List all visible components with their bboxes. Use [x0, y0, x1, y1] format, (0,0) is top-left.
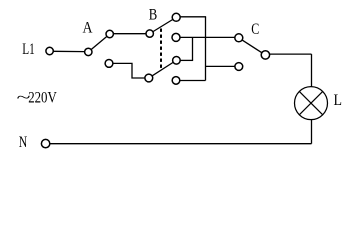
svg-text:B: B	[149, 7, 158, 24]
svg-text:N: N	[19, 134, 28, 151]
svg-text:L: L	[334, 92, 343, 109]
svg-text:C: C	[251, 21, 259, 38]
svg-text:A: A	[83, 20, 94, 37]
svg-text:220V: 220V	[28, 90, 57, 107]
svg-text:L1: L1	[22, 41, 35, 58]
